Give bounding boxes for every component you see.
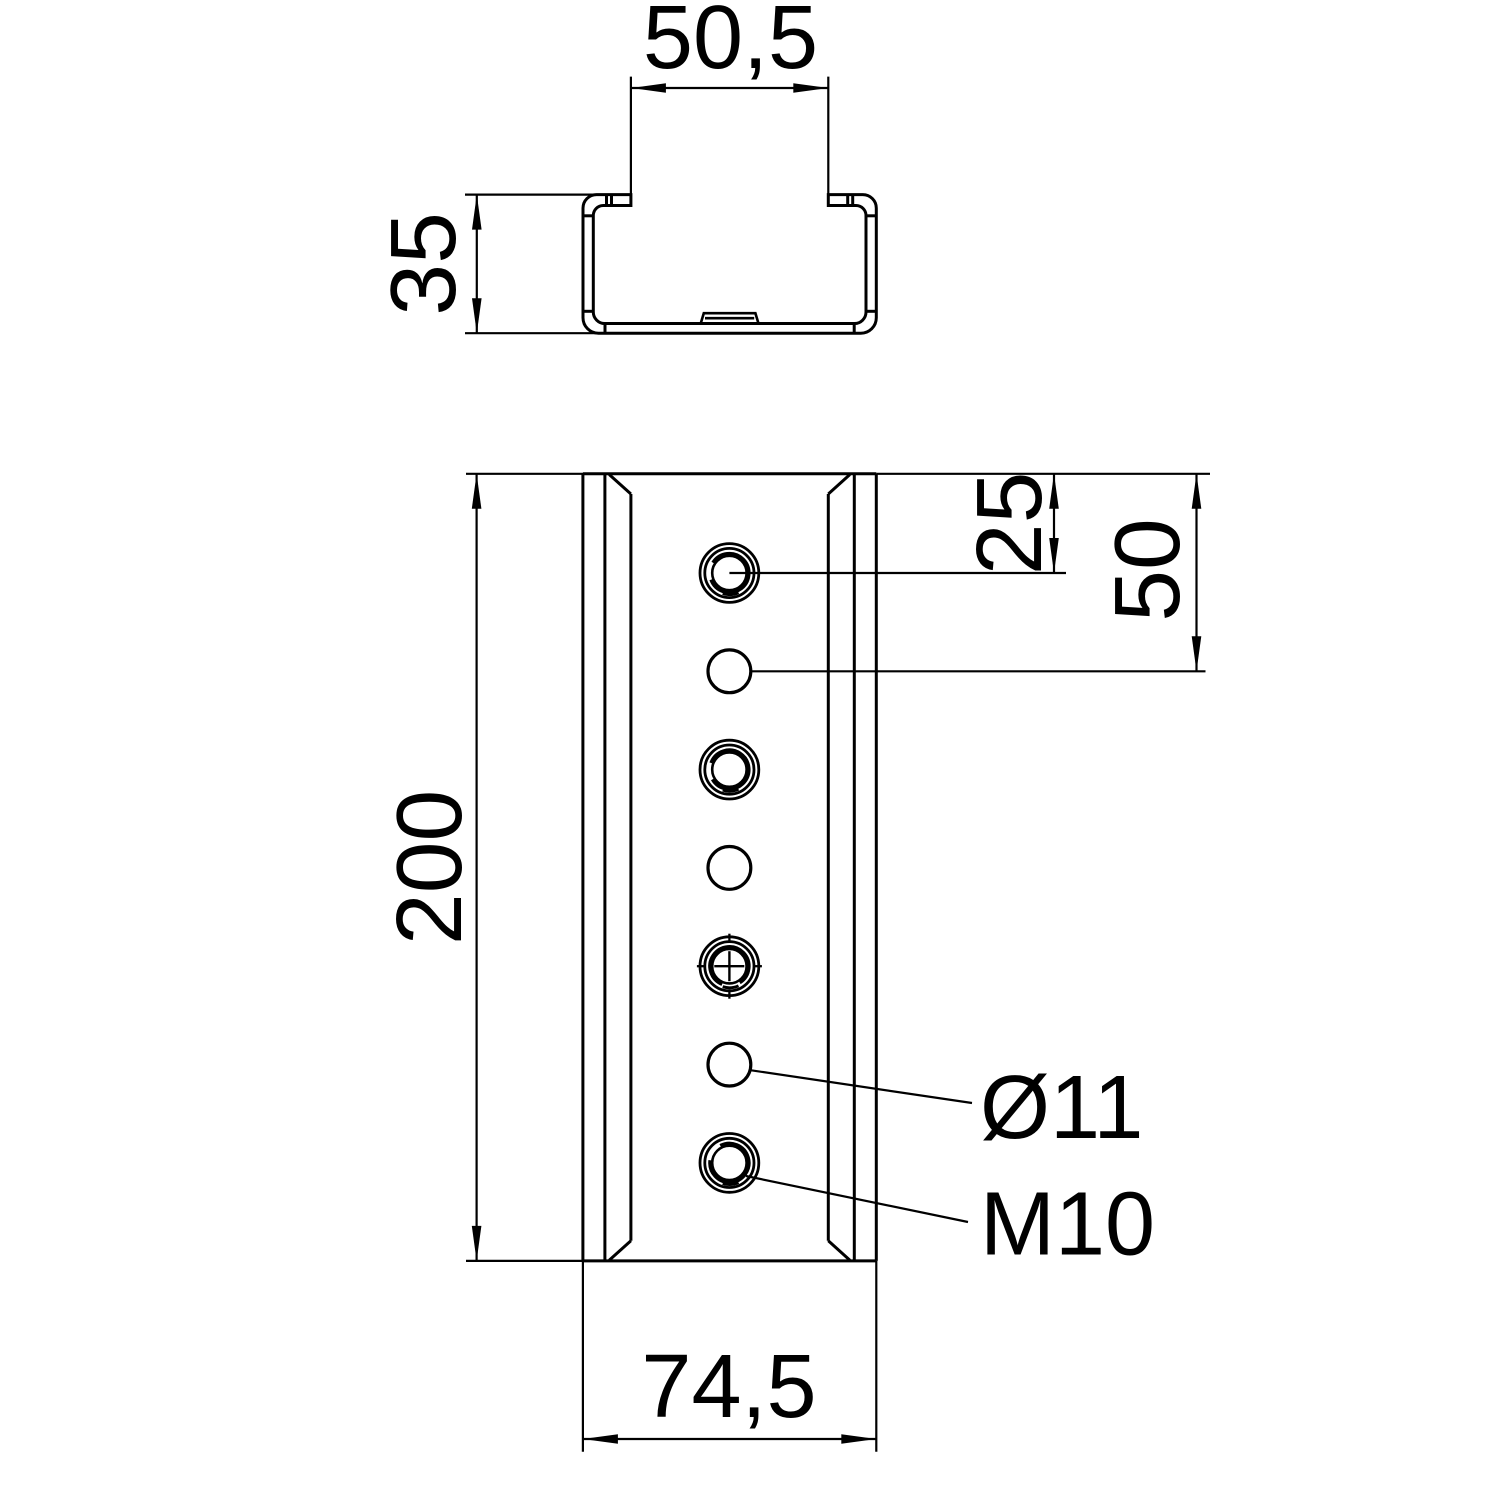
dimension 200: bottom arrowhead: [472, 1226, 482, 1261]
hole M10 #5: quadrant tick left: [697, 965, 704, 967]
hole M10 #5: collar outer circle: [700, 937, 759, 996]
hole M10 #1: collar inner circle: [705, 548, 754, 597]
hole M10 #3: thread arc fragment: [723, 789, 739, 791]
front view: right outer edge: [875, 474, 878, 1261]
dimension 35: top arrowhead: [472, 195, 482, 230]
dimension 25: leader from hole 1: [729, 572, 1066, 574]
hole M10 #1: collar outer circle: [700, 544, 759, 603]
hole M10 #7: thread arc fragment: [723, 1183, 739, 1185]
hole M10 #1: core hole circle: [712, 556, 746, 590]
dimension 50: bottom arrowhead: [1192, 636, 1202, 671]
front view: top-right lip chamfer: [828, 475, 850, 495]
dimension 50: top arrowhead: [1192, 474, 1202, 509]
hole M10 #7: collar outer circle: [700, 1134, 759, 1193]
top view: bend tangent ticks on left lip: [605, 195, 608, 206]
front view: left bend line: [629, 494, 632, 1241]
hole M10 #5: quadrant tick bottom: [728, 992, 730, 999]
hole M10 #7: core hole circle: [712, 1146, 746, 1180]
svg-text:50: 50: [1095, 518, 1199, 621]
hole M10 #5: centre cross horizontal: [714, 965, 744, 967]
top view: bend tangent tick right wall lower: [866, 310, 876, 313]
dimension 200: dimension line: [476, 474, 478, 1261]
dimension 74,5: left extension line: [582, 1261, 584, 1452]
hole Ø11 #4: [708, 847, 751, 890]
hole M10 #5: centre cross vertical: [728, 951, 730, 981]
hole M10 #7: collar inner circle: [705, 1138, 754, 1187]
dimension 50: leader from hole 2: [751, 670, 1206, 672]
dimension 50,5: right arrowhead: [793, 83, 828, 93]
dimension 200: bottom extension line: [466, 1260, 584, 1262]
svg-text:50,5: 50,5: [643, 0, 818, 88]
hole M10 #7: thread thick arc: [710, 1144, 748, 1182]
top view: bend tangent tick left wall upper: [583, 214, 593, 217]
hole M10 #5: collar inner circle: [705, 942, 754, 991]
front view: bottom-left lip chamfer: [609, 1241, 631, 1261]
dimension 35: dimension line: [476, 195, 478, 334]
hole M10 #5: quadrant tick right: [755, 965, 762, 967]
dimension 50,5: dimension line: [631, 87, 828, 89]
front view: right bend line: [827, 494, 830, 1241]
top view: bend tangent tick bottom left: [604, 324, 607, 334]
dimension 200: top extension line: [466, 473, 584, 475]
front view: left outer edge: [581, 474, 584, 1261]
hole M10 #5: core hole circle: [712, 949, 746, 983]
dimension 50,5: right extension line: [827, 77, 829, 195]
svg-text:35: 35: [371, 212, 475, 315]
dimension 200: top arrowhead: [472, 474, 482, 509]
svg-text:25: 25: [957, 472, 1061, 575]
front view: right inner fold line: [853, 474, 856, 1261]
hole M10 #1: thread thick arc: [712, 554, 749, 592]
hole M10 #3: core hole circle: [712, 752, 746, 786]
front view: bottom-right lip chamfer: [828, 1241, 850, 1261]
dimension 35: bottom arrowhead: [472, 298, 482, 333]
dimension 35: bottom extension line: [465, 332, 598, 334]
dimension 35: top extension line: [465, 194, 597, 196]
front view: left inner fold line: [603, 474, 606, 1261]
dimension 50,5: left arrowhead: [631, 83, 666, 93]
dimension 50: dimension line: [1195, 474, 1197, 672]
svg-text:74,5: 74,5: [641, 1337, 816, 1437]
top view: rail cross-section outline: [583, 195, 876, 334]
top view: bend tangent ticks on right lip: [851, 195, 854, 206]
dimension 74,5: right extension line: [875, 1261, 877, 1452]
hole M10 #5: quadrant tick top: [728, 934, 730, 941]
hole M10 #3: thread thick arc: [712, 751, 749, 789]
hole M10 #1: thread arc fragment: [723, 593, 739, 595]
dimensions 25/50: shared top extension line: [876, 473, 1210, 475]
front view: top-left lip chamfer: [609, 475, 631, 495]
dimension 74,5: right arrowhead: [841, 1434, 876, 1444]
dimension 50,5: left extension line: [630, 77, 632, 195]
hole Ø11 #2: [708, 650, 751, 693]
top view: bend tangent tick right wall upper: [866, 214, 876, 217]
dimension 25: bottom arrowhead: [1049, 538, 1059, 573]
dimension 74,5: left arrowhead: [583, 1434, 618, 1444]
hole M10 #5: thread thick arc: [710, 947, 748, 984]
hole M10 #3: collar outer circle: [700, 740, 759, 799]
label M10: leader line: [746, 1176, 968, 1222]
hole M10 #5: thread arc fragment: [723, 986, 739, 988]
front view: top edge: [583, 472, 876, 475]
front view: bottom edge: [583, 1259, 876, 1262]
svg-text:M10: M10: [980, 1175, 1155, 1275]
svg-text:200: 200: [377, 790, 481, 945]
hole Ø11 #6: [708, 1043, 751, 1086]
top view: bend tangent tick bottom right: [853, 324, 856, 334]
dimension 25: dimension line: [1053, 474, 1055, 573]
top view: bend tangent tick left wall lower: [583, 310, 593, 313]
dimension 74,5: dimension line: [583, 1438, 876, 1440]
svg-text:Ø11: Ø11: [980, 1058, 1143, 1158]
dimension 25: top arrowhead: [1049, 474, 1059, 509]
hole M10 #3: collar inner circle: [705, 745, 754, 794]
label Ø11: leader line: [750, 1070, 972, 1103]
top view: bottom fixing tab: [701, 313, 759, 323]
